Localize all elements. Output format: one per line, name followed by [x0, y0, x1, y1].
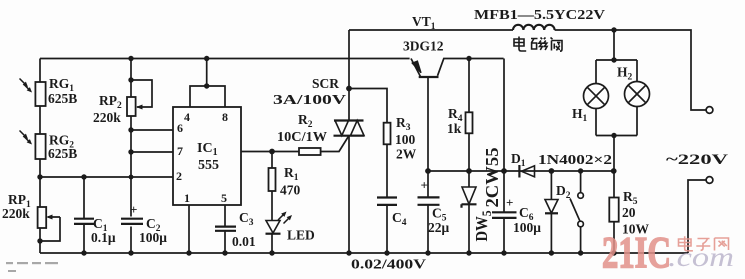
- svg-text:C4: C4: [392, 210, 407, 228]
- faint corner text: [6, 262, 58, 272]
- svg-text:7: 7: [177, 144, 183, 158]
- svg-text:1: 1: [184, 191, 190, 205]
- svg-text:C3: C3: [239, 210, 254, 228]
- svg-text:DW5: DW5: [472, 210, 494, 241]
- svg-text:D2: D2: [556, 183, 571, 201]
- resistor R5: [609, 171, 649, 253]
- resistor R4: [447, 59, 473, 188]
- svg-text:1k: 1k: [447, 121, 462, 136]
- switch: [570, 171, 583, 253]
- wire AC bottom terminal to bottom rail: [688, 180, 706, 253]
- resistor R1: [269, 152, 301, 221]
- photoresistor RG2: [20, 131, 78, 162]
- svg-text:1N4002×2: 1N4002×2: [538, 152, 612, 167]
- svg-text:470: 470: [280, 183, 301, 198]
- photoresistor RG1: [20, 76, 78, 106]
- lamp branch wires: [596, 30, 637, 171]
- terminal AC top: [706, 107, 713, 114]
- svg-text:~220V: ~220V: [666, 152, 729, 168]
- svg-text:SCR: SCR: [312, 76, 339, 91]
- svg-text:R1: R1: [284, 165, 299, 183]
- svg-text:0.02/400V: 0.02/400V: [351, 257, 426, 272]
- wire IC output line: [241, 151, 299, 153]
- svg-text:100μ: 100μ: [139, 230, 167, 245]
- svg-text:H2: H2: [617, 65, 633, 83]
- IC1 555 timer: [173, 59, 241, 206]
- svg-text:625B: 625B: [48, 146, 77, 161]
- lamp H1: [572, 84, 609, 125]
- watermark 21IC.com: [602, 228, 734, 277]
- diode D2: [545, 171, 571, 253]
- resistor R3 with snubber branch: [349, 89, 417, 198]
- label solenoid chinese 电磁阀: [514, 37, 562, 52]
- inductor solenoid coil MFB1-5.5YC22V: [513, 25, 555, 30]
- diode D1: [511, 151, 612, 178]
- capacitor C6: [492, 59, 541, 254]
- capacitor C5: [418, 178, 450, 254]
- svg-text:2W: 2W: [396, 147, 417, 162]
- svg-text:8: 8: [222, 110, 228, 124]
- svg-text:R3: R3: [396, 115, 411, 133]
- wire node line y171: [428, 170, 614, 172]
- svg-text:10C/1W: 10C/1W: [277, 129, 328, 144]
- potentiometer RP2 and its column: [93, 59, 152, 254]
- svg-text:0.01: 0.01: [232, 234, 256, 249]
- capacitor C2: [121, 202, 167, 245]
- wire top rail right section: [555, 30, 706, 110]
- svg-text:2CW55: 2CW55: [482, 148, 502, 208]
- lamp H2: [617, 65, 650, 107]
- wire bottom rail: [40, 252, 688, 254]
- svg-text:220k: 220k: [2, 206, 30, 221]
- wire IC pin1 to bottom rail: [188, 205, 190, 253]
- svg-text:21IC: 21IC: [602, 228, 671, 277]
- transistor VT1 3DG12: [403, 14, 504, 197]
- svg-text:5: 5: [221, 191, 227, 205]
- svg-text:625B: 625B: [48, 91, 77, 106]
- svg-text:555: 555: [198, 158, 219, 173]
- wire IC pin7 line: [131, 151, 173, 153]
- svg-text:20: 20: [622, 205, 636, 220]
- svg-text:LED: LED: [287, 228, 315, 243]
- svg-text:MFB1—5.5YC22V: MFB1—5.5YC22V: [474, 7, 605, 22]
- svg-text:+: +: [130, 202, 137, 217]
- wire left vertical branch: [39, 59, 41, 254]
- capacitor C1: [74, 177, 116, 253]
- zener diode DW5 2CW55: [462, 148, 503, 254]
- svg-text:+: +: [421, 178, 428, 193]
- watermark 电子网: [679, 236, 729, 251]
- svg-text:H1: H1: [572, 106, 588, 124]
- svg-text:R2: R2: [298, 112, 313, 130]
- capacitor C4: [351, 198, 426, 272]
- svg-text:+: +: [506, 195, 513, 210]
- svg-text:6: 6: [177, 121, 183, 135]
- SCR: [273, 30, 365, 253]
- capacitor C3 on pin5: [215, 205, 256, 253]
- terminal AC bottom: [706, 177, 713, 184]
- svg-text:4: 4: [184, 110, 190, 124]
- svg-text:100: 100: [395, 132, 416, 147]
- svg-text:220k: 220k: [93, 110, 121, 125]
- wire node line y177 (pin2 line): [40, 176, 173, 178]
- svg-text:RP2: RP2: [99, 93, 122, 111]
- svg-text:0.1μ: 0.1μ: [91, 230, 116, 245]
- resistor R2: [277, 112, 349, 155]
- LED: [266, 212, 316, 253]
- potentiometer RP1: [2, 192, 60, 241]
- svg-text:3DG12: 3DG12: [403, 39, 444, 54]
- wire top rail (SCR anode to solenoid): [349, 29, 513, 31]
- wire supply rail y58: [40, 58, 410, 60]
- svg-text:3A/100V: 3A/100V: [273, 92, 346, 107]
- svg-text:100μ: 100μ: [513, 220, 541, 235]
- svg-text:2: 2: [176, 169, 182, 183]
- svg-text:22μ: 22μ: [428, 220, 450, 235]
- wire IC pin6 line: [131, 129, 173, 131]
